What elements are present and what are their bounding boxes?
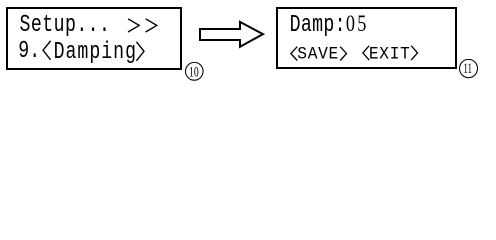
text Setup... <box>20 14 111 38</box>
text 9. <box>18 40 40 64</box>
text Damping <box>54 41 137 65</box>
text Damp:05 <box>290 14 369 38</box>
block arrow (right) <box>197 19 267 51</box>
left angle bracket of <Damping> <box>42 40 52 61</box>
right angle bracket of <Damping> <box>135 41 145 62</box>
circled number 11 <box>459 59 479 79</box>
svg-text:11: 11 <box>464 60 473 77</box>
left angle bracket of <EXIT> <box>362 45 371 61</box>
right angle bracket of <EXIT> <box>410 45 419 61</box>
left angle bracket of <SAVE> <box>290 46 299 62</box>
double chevron >> <box>127 18 159 34</box>
text EXIT <box>369 46 411 63</box>
LCD screen box 2 (Damping setting) <box>276 7 457 69</box>
text SAVE <box>297 46 339 63</box>
svg-text:10: 10 <box>189 63 199 80</box>
right angle bracket of <SAVE> <box>339 46 348 62</box>
circled number 10 <box>185 62 205 82</box>
LCD screen box 1 (Setup menu) <box>6 7 182 70</box>
